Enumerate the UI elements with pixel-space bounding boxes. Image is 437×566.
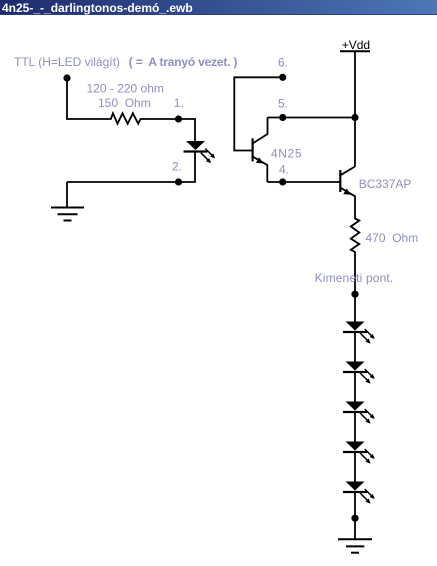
- node bottom: [351, 515, 358, 522]
- svg-text:4.: 4.: [279, 163, 289, 177]
- svg-text:1.: 1.: [174, 96, 184, 110]
- node 4: [279, 178, 286, 185]
- wire resistor to node 1: [144, 119, 195, 141]
- node A (TTL input): [63, 74, 70, 81]
- wire emitter to BC337 base (node 4): [267, 181, 340, 183]
- wire: [354, 372, 356, 402]
- LED D3: [343, 362, 375, 384]
- +Vdd supply symbol: [340, 38, 370, 52]
- wire: [354, 452, 356, 482]
- node 5: [279, 114, 286, 121]
- node 2: [175, 178, 182, 185]
- LED D1: [184, 141, 216, 163]
- svg-text:BC337AP: BC337AP: [359, 177, 412, 191]
- resistor R1 150 Ohm: [108, 113, 144, 123]
- svg-text:Kimeneti pont.: Kimeneti pont.: [315, 271, 394, 285]
- wire: [354, 332, 356, 362]
- svg-text:470 Ohm: 470 Ohm: [366, 231, 419, 245]
- svg-text:2.: 2.: [172, 160, 182, 174]
- svg-text:5.: 5.: [278, 97, 288, 111]
- wire LED chain to ground: [354, 492, 356, 539]
- svg-text:6.: 6.: [278, 56, 288, 70]
- node junction rail/node5: [351, 114, 358, 121]
- node output point: [351, 291, 358, 298]
- wire LED to node 2: [67, 152, 195, 183]
- transistor Q1 BC337AP: [340, 167, 355, 218]
- phototransistor U1 (4N25): [253, 118, 268, 183]
- LED D5: [343, 442, 375, 464]
- ground G2: [338, 539, 372, 553]
- LED D2: [343, 322, 375, 344]
- wire node2 to ground: [66, 182, 68, 208]
- node 6: [279, 74, 286, 81]
- svg-text:( = A tranyó vezet. ): ( = A tranyó vezet. ): [129, 55, 238, 69]
- LED D6: [343, 482, 375, 504]
- LED D4: [343, 402, 375, 424]
- svg-text:4N25: 4N25: [271, 147, 302, 161]
- svg-text:+Vdd: +Vdd: [342, 38, 370, 52]
- ground G1: [51, 208, 84, 221]
- wire input down: [67, 78, 108, 119]
- wire: [354, 412, 356, 442]
- wire Vdd rail: [354, 51, 356, 166]
- svg-text:120 - 220 ohm: 120 - 220 ohm: [87, 82, 164, 96]
- wire resistor to LED chain: [354, 253, 356, 322]
- wire collector to rail (node 5): [268, 117, 356, 119]
- wire node6 to phototransistor base: [234, 77, 282, 150]
- title bar: [0, 0, 437, 15]
- svg-text:TTL (H=LED világít): TTL (H=LED világít): [14, 55, 120, 69]
- svg-text:150 Ohm: 150 Ohm: [98, 96, 151, 110]
- resistor R2 470 Ohm: [351, 217, 360, 253]
- node 1: [175, 115, 182, 122]
